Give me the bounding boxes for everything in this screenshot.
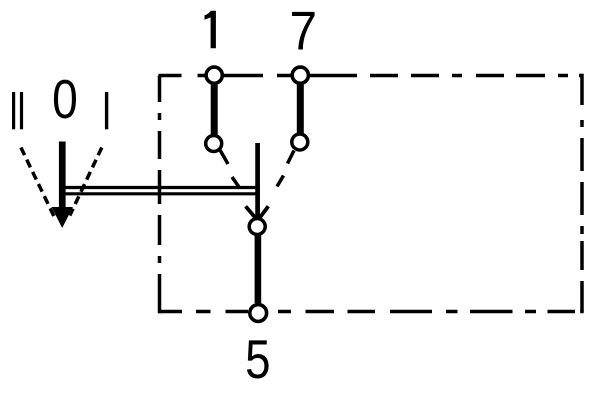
contact circle below terminal 7 — [292, 134, 308, 150]
label I (position 1) — [105, 92, 108, 129]
contact blade from terminal 7 (solid + dash) — [277, 151, 294, 187]
label II (position 2) — [12, 92, 23, 129]
wire: stem terminal 7 — [297, 84, 304, 134]
svg-text:5: 5 — [245, 328, 270, 390]
pole contact circle — [249, 219, 265, 235]
wire: pole to terminal 5 — [255, 236, 262, 304]
pole open arrowhead — [246, 206, 269, 218]
contact blade from terminal 1 (solid + dash) — [220, 150, 240, 189]
dashed travel line right (to position I) — [70, 148, 102, 216]
enclosure border top (dash-dot) — [159, 74, 583, 78]
terminal 7 circle — [292, 67, 308, 83]
linkage double bar (wire) — [62, 188, 260, 194]
contact circle below terminal 1 — [206, 136, 222, 152]
terminal 5 circle — [250, 305, 267, 322]
svg-text:7: 7 — [289, 1, 317, 62]
enclosure border bottom (dash-dot) — [159, 310, 584, 314]
dashed travel line left (to position II) — [21, 148, 56, 221]
enclosure border left (dash-dot) — [158, 76, 162, 314]
svg-text:0: 0 — [52, 68, 78, 130]
terminal 1 circle — [206, 67, 222, 83]
wire: common pole line — [255, 143, 260, 218]
label terminal 1 — [205, 11, 216, 49]
enclosure border right (dash-dot) — [580, 74, 584, 312]
wire: stem terminal 1 — [211, 84, 218, 135]
lever actuator arrow — [52, 142, 73, 229]
